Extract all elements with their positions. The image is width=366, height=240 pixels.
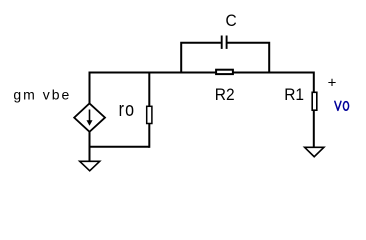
label vo (335, 101, 349, 110)
svg-text:C: C (226, 12, 237, 31)
label R2 (215, 85, 235, 104)
wire bottom horizontal (89, 146, 150, 148)
capacitor C plates (221, 36, 223, 49)
wire current source bottom (89, 132, 91, 148)
wire R1 top (313, 72, 315, 93)
svg-text:R2: R2 (215, 85, 235, 104)
resistor R1 (312, 92, 317, 110)
wire ro bottom (148, 124, 150, 148)
current source G1 diamond (74, 103, 105, 131)
svg-text:+: + (328, 74, 337, 91)
ground right (305, 147, 324, 156)
resistor ro (147, 106, 152, 123)
wire bus to current source top (89, 72, 91, 105)
wire capacitor loop right (227, 43, 269, 74)
wire R1 bottom (313, 111, 315, 147)
svg-text:gm vbe: gm vbe (13, 87, 71, 103)
wire ro top (148, 72, 150, 107)
ground left (80, 161, 100, 171)
current source arrow (89, 110, 91, 123)
wire main bus (90, 72, 314, 74)
resistor R2 (216, 70, 233, 74)
wire capacitor loop left (181, 43, 221, 74)
svg-text:ro: ro (119, 97, 136, 120)
label ro (119, 97, 136, 120)
svg-text:R1: R1 (284, 85, 304, 104)
wire ground stem left (89, 147, 91, 162)
label R1 (284, 85, 304, 104)
label C (226, 12, 237, 31)
